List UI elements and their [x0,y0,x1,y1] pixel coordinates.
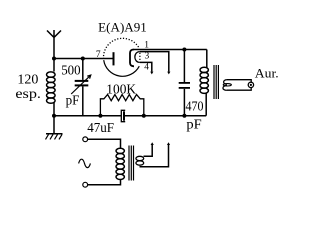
svg-text:Aur.: Aur. [255,66,279,80]
wire pin 3 heater lead [140,52,169,72]
svg-text:pF: pF [186,117,201,132]
arrow pin 3 down [167,72,170,75]
wire pin1 cathode to transformer [134,49,207,51]
svg-text:7: 7 [96,50,101,60]
antenna [47,30,61,59]
ground [46,134,63,140]
tube V1 cathode [130,50,134,67]
tube V1 heater dotted line [139,53,141,62]
inductor L1 coil [47,72,56,103]
resistor R1 100K [100,95,143,116]
svg-text:pF: pF [66,93,80,108]
transformer T2 terminal bottom [83,182,88,187]
tube V1 envelope solid bottom [104,60,140,76]
capacitor C2 47uF electrolytic [121,110,125,121]
svg-text:500: 500 [61,63,81,78]
svg-text:4: 4 [144,62,149,72]
transformer T1 secondary [223,80,231,91]
svg-text:470: 470 [186,98,204,113]
transformer T1 core [214,65,218,99]
tube V1 heater arc [135,52,140,63]
earphone jack circle [248,82,253,87]
tube V1 envelope dotted top [104,38,140,59]
svg-text:E(A)A91: E(A)A91 [98,20,147,35]
node junction R1 right [142,114,146,118]
arrow heater supply up left [151,142,154,145]
transformer T2 secondary [136,156,144,165]
node junction antenna/coil [52,57,56,61]
svg-text:47uF: 47uF [87,121,114,136]
arrow heater supply up right [167,142,170,145]
svg-text:120: 120 [17,71,38,86]
wire coil top stub [53,59,55,72]
svg-text:3: 3 [145,51,150,61]
wire T2 top terminal to primary [88,139,121,148]
svg-text:esp.: esp. [15,86,41,101]
transformer T2 primary [116,148,124,179]
wire coil bottom stub [53,103,55,116]
wire bottom left segment [54,115,121,117]
node junction ground [52,114,56,118]
wire ground stub [53,116,55,134]
node junction C3 bottom [182,114,186,118]
wire bottom right segment [125,115,206,117]
wire T2 secondary bottom lead [140,145,169,167]
node junction C3 top [182,48,186,52]
wire pin 4 heater lead [140,62,152,71]
wire T2 secondary top lead [144,145,153,156]
capacitor C3 470pF [179,50,190,116]
transformer T2 heater: terminal top [83,137,88,142]
tube V1 anode plate [113,52,115,65]
transformer T2 core [129,146,134,181]
transformer T1 primary [200,67,208,93]
label L1 value 120 esp. [15,71,41,101]
node junction R1 left [98,114,102,118]
AC source symbol [79,159,91,167]
wire top right corner down [206,50,208,69]
svg-text:100K: 100K [106,81,136,96]
wire top-left horizontal [54,58,113,60]
earphone leads [227,80,251,91]
wire T1 primary bottom to bottom wire [205,93,207,116]
capacitor C1 variable 500pF [71,59,91,116]
wire T2 primary bottom to terminal [88,179,121,185]
node junction C1 top [81,57,85,61]
arrow pin 4 down [150,72,153,75]
